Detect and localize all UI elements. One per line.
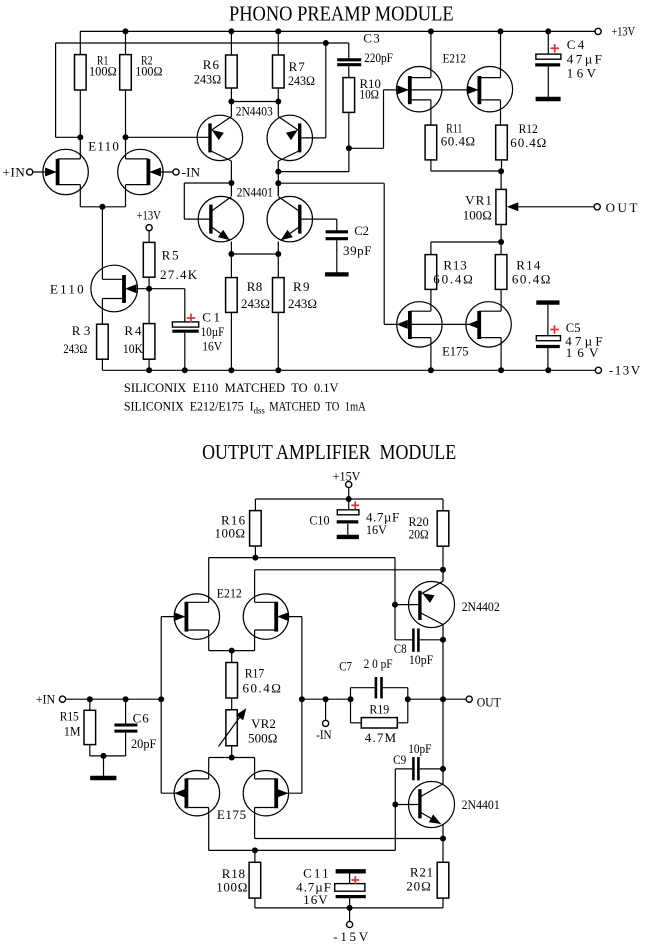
jfet E110 lower (current source) [91, 265, 149, 324]
svg-text:SILICONIX E110 MATCHED TO 0.1V: SILICONIX E110 MATCHED TO 0.1V [124, 380, 339, 395]
junction +IN/gate column [158, 696, 164, 702]
resistor R8 [226, 278, 238, 313]
svg-text:60.4Ω: 60.4Ω [512, 272, 551, 287]
svg-text:R17: R17 [245, 666, 265, 681]
wire C7 right lead [383, 687, 408, 689]
svg-text:R14: R14 [516, 257, 541, 272]
svg-text:243Ω: 243Ω [63, 341, 87, 356]
svg-text:OUTPUT AMPLIFIER MODULE: OUTPUT AMPLIFIER MODULE [202, 440, 456, 464]
wire R12 bottom lead [501, 160, 503, 171]
node 2N4403R col / R10 net [275, 169, 281, 175]
wire R19 left lead [351, 722, 362, 724]
wire C9 left drop [394, 769, 396, 805]
junction -13V rail/C5 [545, 367, 551, 373]
wire +15V lead [348, 488, 350, 499]
svg-text:60.4Ω: 60.4Ω [433, 271, 473, 286]
wire C7 left drop [350, 688, 352, 700]
wire R21 bottom lead [442, 898, 444, 908]
wire R2 bottom lead / E110R drain [125, 90, 127, 159]
svg-text:+15V: +15V [333, 468, 361, 483]
wire R10 node right [349, 147, 384, 149]
wire R6-R7 bottom join [231, 101, 278, 103]
resistor R20 [437, 511, 449, 546]
junction sources/R17 [229, 648, 235, 654]
svg-text:100Ω: 100Ω [135, 63, 162, 78]
jfet E175 left (preamp) [396, 302, 442, 371]
wire 2N4401L base route top [184, 182, 231, 184]
wire R15/C6 join [90, 755, 126, 757]
wire E110 source tail [80, 206, 125, 208]
resistor R15 [84, 710, 96, 744]
svg-text:10K: 10K [123, 341, 144, 356]
resistor R5 [143, 242, 155, 277]
resistor R1 [75, 55, 87, 90]
svg-text:R9: R9 [293, 279, 310, 294]
svg-text:60.4Ω: 60.4Ω [243, 680, 281, 695]
polarity + C10 [351, 504, 359, 506]
wire R10 bottom lead [348, 112, 350, 148]
wire E212 gates [384, 89, 480, 91]
junction emitter/R9 [275, 251, 281, 257]
svg-text:100Ω: 100Ω [463, 207, 492, 222]
capacitor C10 [337, 499, 359, 535]
wire to ground [103, 756, 105, 776]
svg-text:R8: R8 [247, 279, 262, 294]
wire to E212L drain [209, 557, 256, 559]
wire E175 gate drop [383, 183, 385, 324]
wire VR1 top lead [500, 171, 502, 189]
svg-text:20Ω: 20Ω [409, 527, 429, 542]
svg-text:PHONO PREAMP MODULE: PHONO PREAMP MODULE [229, 2, 454, 26]
transistor 2N4403 right [267, 102, 312, 172]
resistor R7 [273, 55, 285, 88]
wire R5 to R4 [148, 277, 150, 323]
svg-text:C2: C2 [354, 223, 369, 238]
junction C11/-15V [347, 905, 353, 911]
resistor R13 [425, 255, 437, 290]
node VR2/E175 drains [229, 755, 235, 761]
wiper arrow VR1 [507, 202, 594, 211]
svg-text:R18: R18 [222, 866, 245, 881]
wire to R10 bottom node [278, 171, 349, 173]
wire R7 top lead [277, 31, 279, 55]
transistor 2N4401 right [267, 183, 312, 254]
wire to R13 [431, 241, 501, 243]
wire R6 bottom lead [230, 88, 232, 102]
wire 2N4401R base to C2 [300, 218, 337, 220]
node 2N4403L col / 2N4401L [228, 180, 234, 186]
junction rail/E175R [498, 367, 504, 373]
wire R17 top lead [231, 651, 233, 663]
svg-text:-IN: -IN [316, 727, 332, 742]
wire VR1 bottom lead [500, 225, 502, 255]
capacitor C4 [535, 31, 561, 97]
wire 2N4401 emitter lead [442, 825, 444, 839]
node R20/2N4402 emitter [440, 567, 446, 573]
capacitor C7 [376, 677, 382, 698]
wire -15V rail [255, 907, 443, 909]
node feedback left [348, 696, 354, 702]
terminal +13V (R5 top) [146, 225, 152, 231]
junction C8 right [440, 637, 446, 643]
capacitor C1 [172, 289, 198, 371]
wire 2N4402 base drop [394, 558, 396, 605]
resistor R10 [343, 78, 355, 113]
svg-text:R19: R19 [369, 702, 389, 717]
wire C8 right lead [420, 639, 443, 641]
wire 2N4401L base [184, 218, 211, 220]
junction -IN column [299, 696, 305, 702]
resistor R2 [120, 55, 132, 90]
svg-text:20pF: 20pF [131, 736, 156, 751]
junction C9 right [440, 766, 446, 772]
resistor R14 [495, 255, 507, 290]
wire R19 left drop [350, 699, 352, 723]
svg-text:+13V: +13V [612, 23, 636, 38]
capacitor C5 [536, 305, 561, 371]
junction -IN terminal [323, 696, 329, 702]
svg-text:C7: C7 [339, 659, 352, 674]
wire output rail upper [442, 640, 444, 699]
wire to C1 [149, 288, 185, 290]
jfet E175 right (output) [243, 771, 302, 839]
wire R14 bottom lead [500, 289, 502, 311]
wire E212 sources join [209, 650, 255, 652]
svg-text:MATCHED TO 1mA: MATCHED TO 1mA [269, 398, 366, 413]
junction ground node [101, 753, 107, 759]
junction rail1/E212R [498, 28, 504, 34]
svg-text:60.4Ω: 60.4Ω [441, 134, 475, 149]
svg-text:E212: E212 [443, 50, 466, 65]
node R1/E110L drain [77, 134, 83, 140]
svg-text:VR2: VR2 [251, 716, 276, 731]
wire R15 bottom lead [89, 745, 91, 756]
jfet E212 left (output) [161, 594, 219, 651]
wire C9 left lead [395, 768, 412, 770]
svg-text:10pF: 10pF [408, 741, 431, 756]
svg-text:E175: E175 [442, 344, 468, 359]
wire C7 right drop [407, 688, 409, 700]
wire up to E212 gate [383, 90, 385, 148]
wire 2N4403R base to rail2 [325, 43, 327, 138]
wire 2N4403R base [300, 137, 326, 139]
svg-text:VR1: VR1 [465, 192, 492, 207]
junction rail1/R7 [275, 28, 281, 34]
svg-text:OUT: OUT [606, 200, 638, 215]
resistor R17 [226, 663, 238, 699]
junction rail1/E212L [428, 28, 434, 34]
svg-text:243Ω: 243Ω [241, 296, 270, 311]
terminal -15V [347, 921, 353, 927]
svg-text:60.4Ω: 60.4Ω [510, 135, 546, 150]
wire 2N4401 base drop [394, 805, 396, 851]
wire C8 left drop [394, 605, 396, 640]
jfet E212 right (output) [243, 570, 302, 651]
svg-text:243Ω: 243Ω [194, 72, 221, 87]
wire R16 top lead [254, 499, 256, 511]
resistor R19 [361, 718, 397, 728]
junction rail/R4 [146, 367, 152, 373]
svg-text:16V: 16V [566, 345, 599, 360]
junction rail/E175L [428, 367, 434, 373]
wire E175R drain lead [254, 758, 256, 779]
svg-text:47µF: 47µF [567, 52, 602, 67]
jfet E212 left (preamp) [397, 31, 442, 125]
svg-text:R5: R5 [162, 248, 179, 263]
junction rail1/R6 [228, 28, 234, 34]
resistor R4 [143, 324, 155, 360]
junction emitter/R21 [440, 836, 446, 842]
wire R11 to R12 node [431, 170, 502, 172]
svg-text:1M: 1M [64, 724, 81, 739]
node R11/R12/VR1 [498, 168, 504, 174]
transistor 2N4401 left [198, 183, 243, 254]
jfet E175 right (preamp) [466, 302, 511, 371]
svg-text:C11: C11 [303, 866, 329, 881]
svg-text:+IN: +IN [3, 164, 26, 179]
svg-text:100Ω: 100Ω [89, 63, 117, 78]
wire up to R10 bottom [348, 148, 350, 171]
svg-text:C6: C6 [133, 711, 150, 726]
wire -IN terminal lead [325, 699, 327, 720]
resistor R3 [97, 324, 109, 359]
jfet E175 left (output) [161, 771, 219, 851]
resistor R12 [496, 125, 508, 160]
svg-text:2N4401: 2N4401 [237, 185, 273, 200]
wire E175R source to 2N4401 emitter [255, 838, 443, 840]
terminal -IN (output) [323, 720, 329, 726]
resistor R16 [250, 511, 262, 546]
svg-text:R6: R6 [203, 57, 220, 72]
wire to 2N4402 base route [255, 557, 395, 559]
svg-text:10µF: 10µF [201, 324, 224, 339]
wire R13 top lead [430, 242, 432, 255]
svg-text:SILICONIX E212/E175 I: SILICONIX E212/E175 I [124, 398, 254, 413]
svg-text:16V: 16V [567, 66, 597, 81]
node VR1/R13/R14 [498, 239, 504, 245]
svg-text:+IN: +IN [36, 692, 56, 707]
junction +IN/R15 [87, 696, 93, 702]
svg-text:E175: E175 [217, 807, 246, 822]
svg-text:2 0 pF: 2 0 pF [364, 656, 393, 671]
resistor R9 [273, 278, 285, 313]
wire R13 bottom lead [430, 289, 432, 311]
ground bar above C5 [536, 300, 559, 304]
svg-text:C3: C3 [363, 31, 380, 46]
wire +IN [66, 698, 162, 700]
ground bar below C4 [536, 97, 561, 101]
wire E175L drain lead [208, 758, 210, 779]
potentiometer VR1 [496, 189, 506, 224]
svg-text:R13: R13 [443, 257, 466, 272]
svg-text:10Ω: 10Ω [360, 86, 380, 101]
wire output rail lower [442, 699, 444, 769]
svg-text:243Ω: 243Ω [288, 73, 315, 88]
wire E212L drain lead [208, 558, 210, 603]
polarity + C5 [550, 329, 559, 331]
junction emitter/R8 [228, 251, 234, 257]
transistor 2N4401 output [395, 782, 454, 828]
wire 2N4403R col to 2N4401R col [277, 172, 279, 196]
svg-text:220pF: 220pF [364, 50, 393, 65]
wire to E175 gates [278, 182, 384, 184]
node feedback right [405, 696, 411, 702]
junction 2N4401 base/C9 [392, 802, 398, 808]
svg-text:2N4401: 2N4401 [462, 797, 500, 812]
wire R8 bottom lead [230, 312, 232, 370]
wire +IN gate column [160, 617, 162, 794]
junction rail1/R2 [123, 28, 129, 34]
potentiometer VR2 [219, 708, 247, 746]
wire -13V rail [102, 369, 595, 371]
wire R7 bottom lead [277, 88, 279, 102]
wire R17 to VR2 [231, 698, 233, 709]
polarity + C1 [187, 317, 196, 319]
svg-text:OUT: OUT [477, 694, 501, 709]
node R5/R4/gate/C1 [146, 286, 152, 292]
junction rail/R8 [228, 367, 234, 373]
svg-text:4.7M: 4.7M [365, 730, 397, 745]
wire 2N4402 collector lead [442, 625, 444, 640]
svg-text:+13V: +13V [137, 207, 162, 222]
ground bar above C11 [336, 869, 366, 873]
resistor R11 [425, 125, 437, 160]
ground [90, 776, 116, 781]
svg-text:R15: R15 [60, 708, 79, 723]
junction R7/2N4403R emitter [275, 99, 281, 105]
wire R21 top lead [442, 839, 444, 863]
wire E212R drain to R20/2N4402 emitter [255, 569, 443, 571]
wire R3 bottom lead [101, 359, 103, 370]
svg-text:2N4403: 2N4403 [236, 103, 273, 118]
svg-text:500Ω: 500Ω [248, 730, 277, 745]
transistor 2N4402 [395, 581, 455, 627]
resistor R18 [249, 862, 261, 898]
capacitor C8 [413, 629, 418, 652]
capacitor C2 [326, 232, 348, 273]
resistor R21 [437, 862, 449, 898]
wire R19 right drop [407, 699, 409, 723]
wire E175 gates [384, 323, 479, 325]
wire 2N4401L base route drop [183, 183, 185, 219]
junction +15V/C10 [346, 496, 352, 502]
capacitor C6 [114, 699, 137, 756]
wire R18 top lead [254, 850, 256, 862]
wire -IN gate column [301, 617, 303, 794]
svg-text:10pF: 10pF [409, 652, 433, 667]
wire R20 bottom lead [442, 546, 444, 570]
wire R8 top lead [230, 254, 232, 278]
wire R9 top lead [277, 254, 279, 278]
junction rail1/C4 [545, 28, 551, 34]
wire R19 right lead [397, 722, 408, 724]
jfet E110 left (input) [33, 149, 89, 207]
capacitor C11 [335, 874, 366, 908]
node R2/E110R drain/2N4403L base [123, 134, 129, 140]
svg-text:-IN: -IN [182, 164, 201, 179]
wire to 2N4402 emitter [442, 570, 444, 581]
ground bar below C2 [325, 272, 349, 276]
wire E175 drains join [209, 757, 255, 759]
node R16 bottom [252, 555, 258, 561]
wire -15V lead [349, 908, 351, 922]
terminal OUT (output) [466, 696, 472, 702]
terminal +IN (output) [59, 696, 65, 702]
wire to OUT [408, 698, 466, 700]
wire R15 top lead [89, 699, 91, 710]
junction rail/R9 [275, 367, 281, 373]
junction R6/2N4403L emitter [228, 99, 234, 105]
tail junction [99, 204, 105, 210]
terminal +13V [595, 28, 601, 34]
wire VR2 bottom lead [231, 747, 233, 758]
terminal +IN [27, 169, 33, 175]
wire E175L source to 2N4401 base [209, 849, 396, 851]
capacitor C9 [413, 757, 418, 780]
wire C7 left lead [351, 687, 375, 689]
terminal OUT (preamp) [594, 204, 600, 210]
svg-text:16V: 16V [303, 892, 328, 907]
svg-text:243Ω: 243Ω [288, 296, 317, 311]
wire R4 bottom lead [148, 359, 150, 370]
terminal +15V [346, 481, 352, 487]
svg-text:dss: dss [254, 406, 265, 416]
junction rail2/2N4403 base branch [323, 40, 329, 46]
ground bar below C10 [337, 535, 359, 539]
svg-text:E212: E212 [217, 585, 242, 600]
resistor R6 [226, 55, 238, 88]
wire R1 bottom lead / E110 drain [79, 90, 81, 159]
svg-text:16V: 16V [202, 338, 222, 353]
wire -IN to feedback [302, 698, 351, 700]
wire C8 left lead [395, 639, 412, 641]
transistor 2N4403 left [197, 102, 242, 184]
wire R6 top lead [230, 31, 232, 55]
wire R18 bottom lead [254, 898, 256, 908]
svg-text:16V: 16V [366, 522, 387, 537]
wire R9 bottom lead [277, 312, 279, 370]
terminal -IN (preamp) [173, 169, 179, 175]
svg-text:100Ω: 100Ω [216, 880, 247, 895]
junction R18 top [252, 847, 258, 853]
wire to R1 bottom node [56, 136, 81, 138]
wire 2N4401 collector lead [442, 769, 444, 784]
wire rail2 (R1 node to C3) [56, 42, 349, 44]
wire 2N4401 emitters join [231, 253, 278, 255]
svg-text:R7: R7 [289, 59, 306, 74]
svg-text:C8: C8 [394, 641, 407, 656]
polarity + C11 [351, 879, 359, 881]
svg-text:C10: C10 [309, 513, 329, 528]
wire C9 right lead [420, 768, 443, 770]
svg-text:R12: R12 [519, 121, 538, 136]
node R10 bottom [346, 145, 352, 151]
wire C2 top lead [336, 219, 338, 230]
wire C3 top lead [348, 43, 350, 58]
svg-text:39pF: 39pF [343, 243, 372, 258]
junction OUT rail [440, 696, 446, 702]
wire R2 top lead [125, 31, 127, 54]
jfet E212 right (preamp) [467, 31, 513, 125]
wire to 2N4403 left base [126, 136, 211, 138]
junction +IN/C6 [123, 696, 129, 702]
wire R16 bottom lead [254, 546, 256, 558]
terminal -13V [595, 367, 601, 373]
jfet E110 right (input) [118, 149, 173, 207]
junction 2N4402 base/C8 [392, 602, 398, 608]
svg-text:C9: C9 [393, 752, 406, 767]
wire +15V rail [255, 498, 443, 500]
